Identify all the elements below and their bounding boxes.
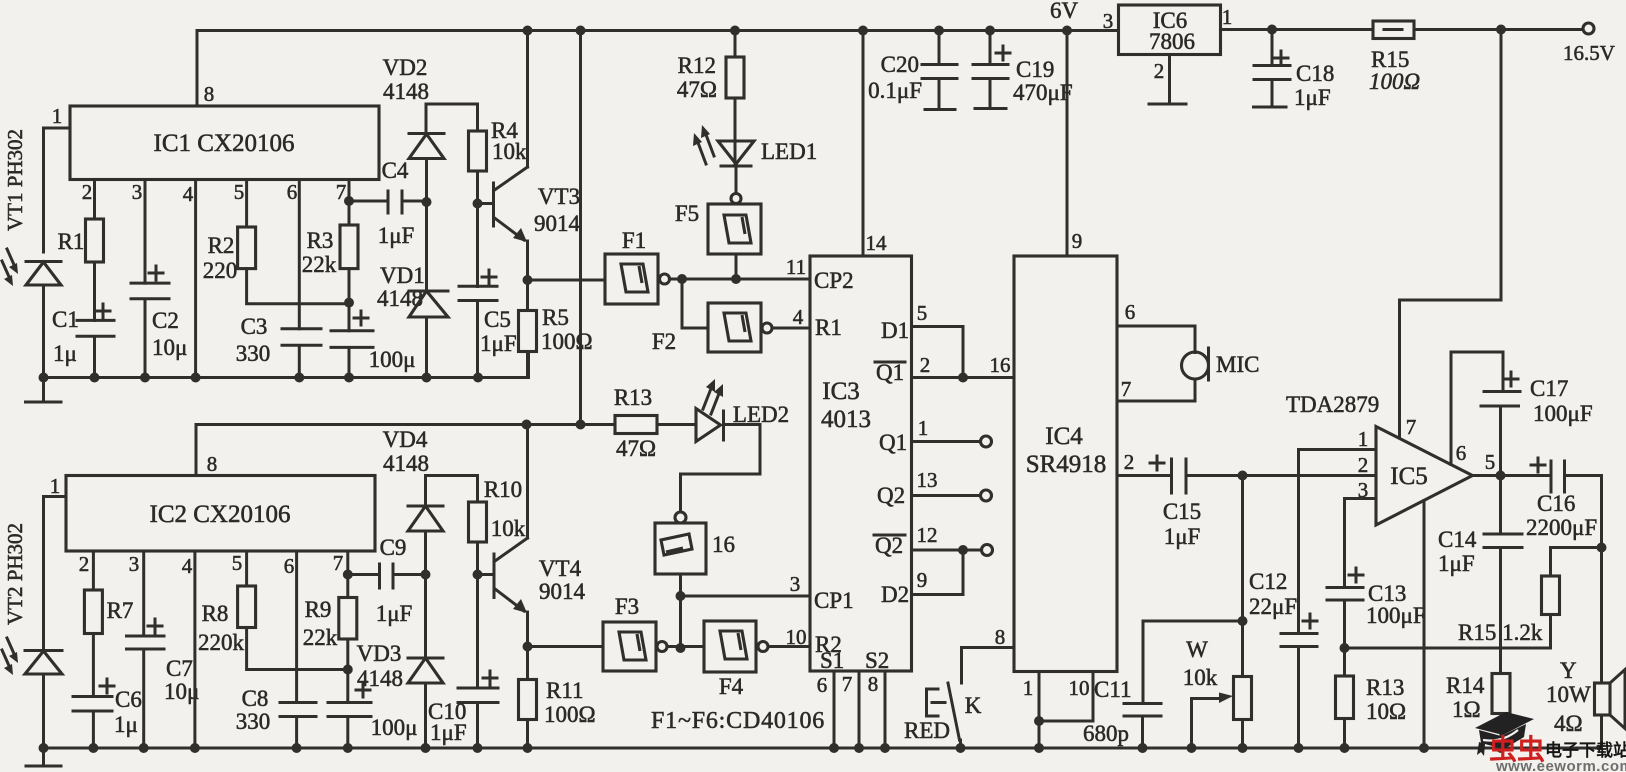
wire R1 to C1 — [93, 262, 96, 320]
svg-text:7: 7 — [333, 551, 344, 575]
svg-text:R2: R2 — [208, 233, 235, 258]
wire IC5 pin 6 to C17 — [1451, 352, 1503, 465]
svg-text:22μF: 22μF — [1249, 594, 1297, 619]
svg-text:C3: C3 — [241, 314, 268, 339]
svg-text:10Ω: 10Ω — [1366, 699, 1406, 724]
svg-text:W: W — [1186, 637, 1208, 662]
ground symbol bottom section — [26, 748, 61, 766]
svg-text:S1: S1 — [820, 648, 844, 673]
svg-text:22k: 22k — [302, 252, 337, 277]
svg-text:10k: 10k — [1183, 665, 1218, 690]
wire pin 4 to ground rail — [193, 551, 196, 748]
ground IC6 pin 2 — [1149, 55, 1186, 105]
resistor R10 10k — [469, 502, 487, 542]
diode VD4 — [408, 476, 443, 507]
wire IC4 pin 10 to pin 1 — [1039, 672, 1093, 722]
wire IC3 pin 6 (S1) to ground — [833, 671, 836, 748]
svg-text:C17: C17 — [1530, 376, 1568, 401]
diode VD2 — [409, 104, 444, 134]
wire IC5 output pin 5 — [1473, 474, 1552, 477]
svg-text:R13: R13 — [614, 385, 652, 410]
ground symbol top section — [26, 378, 62, 403]
svg-text:R1: R1 — [815, 315, 842, 340]
svg-text:9: 9 — [1072, 229, 1083, 253]
capacitor C11 680p — [1124, 621, 1161, 748]
node R3/R2/100u junction — [344, 298, 354, 308]
wire pin 7 down — [348, 180, 351, 226]
wire VT4 emitter down — [526, 612, 529, 680]
svg-text:R7: R7 — [107, 598, 134, 623]
svg-text:IC1 CX20106: IC1 CX20106 — [154, 130, 295, 157]
svg-text:1μF: 1μF — [430, 720, 467, 745]
svg-text:6V: 6V — [1050, 0, 1079, 23]
svg-text:1μF: 1μF — [376, 601, 413, 626]
svg-text:D1: D1 — [881, 318, 909, 343]
svg-text:VT4: VT4 — [539, 556, 582, 581]
svg-text:10μ: 10μ — [152, 335, 187, 360]
node VT4 collector junction — [522, 420, 532, 430]
node pin7/C9/R9 — [343, 570, 353, 580]
wire IC2 supply drop (6V rail to pin-8 wire) — [579, 31, 582, 425]
capacitor C7 10u — [127, 636, 165, 748]
wire R2 to R3/VD1 node — [247, 269, 349, 304]
node C9/VD junction — [421, 570, 431, 580]
wire pin 6 to C3 — [298, 180, 301, 329]
svg-text:220: 220 — [203, 258, 238, 283]
svg-text:13: 13 — [917, 468, 938, 492]
wire IC5 pin 1 input — [1299, 448, 1377, 451]
svg-text:4148: 4148 — [357, 666, 403, 691]
svg-text:Y: Y — [1560, 658, 1577, 683]
wire branch down to F2 — [682, 279, 708, 328]
node emitter/R11/F3 — [523, 642, 533, 652]
wire R5 to ground elbow — [478, 352, 528, 378]
svg-text:C5: C5 — [484, 307, 511, 332]
wire R8 to R9/100u node — [247, 628, 348, 670]
svg-text:电子下载站: 电子下载站 — [1545, 740, 1626, 760]
svg-text:6: 6 — [284, 554, 295, 578]
wire IC4 pin 7 to MIC bottom — [1117, 379, 1195, 401]
node C18 junction — [1267, 25, 1277, 35]
photodiode VT2 PH302 — [25, 649, 62, 652]
node IC3 pin14 junction — [858, 26, 868, 36]
svg-text:7: 7 — [842, 672, 853, 696]
svg-text:1μF: 1μF — [378, 223, 415, 248]
wire VD4 top to R10 top — [426, 474, 478, 477]
inverter F2 (CD40106) — [708, 303, 761, 352]
wire base link — [478, 202, 494, 205]
inverter F5 (CD40106) — [731, 194, 741, 204]
wire F2 out to IC3 R1 pin 4 — [772, 327, 810, 330]
svg-text:1μ: 1μ — [53, 341, 77, 366]
capacitor C13 100uF — [1327, 588, 1363, 677]
wire main ground rail — [44, 747, 1602, 750]
wire D2 pin 9 to Q2bar net — [912, 550, 964, 595]
wire pin2 node down to W — [1241, 476, 1244, 677]
svg-text:2: 2 — [1154, 59, 1165, 83]
wire VD2 top to R4 top — [426, 103, 478, 106]
node ground dots bottom — [39, 743, 49, 753]
resistor R14 1ohm — [1492, 674, 1510, 714]
svg-text:F3: F3 — [615, 594, 639, 619]
op-amp U IC1 CX20106 body — [70, 106, 379, 180]
flip-flop U IC3 4013 body — [810, 256, 912, 671]
node R9/R8/100u junction — [343, 665, 353, 675]
node ground dots top section — [39, 373, 49, 383]
wire IC4 pin 9 supply drop — [1066, 31, 1069, 257]
svg-text:3: 3 — [790, 572, 801, 596]
svg-text:1μ: 1μ — [114, 712, 138, 737]
node C4/VD junction — [422, 197, 432, 207]
svg-text:8: 8 — [995, 625, 1006, 649]
svg-text:4148: 4148 — [383, 451, 429, 476]
capacitor C19 470uF — [973, 31, 1008, 109]
capacitor C16 2200uF — [1551, 461, 1602, 683]
wire LED2 to F6 input — [681, 425, 761, 513]
wire 16.5V drop to IC5 pin 7 — [1400, 30, 1502, 437]
wire IC2 pin 8 up to supply wire — [195, 425, 198, 476]
svg-text:2: 2 — [1358, 453, 1369, 477]
wire R4 to base node — [476, 171, 479, 287]
svg-text:8: 8 — [204, 82, 215, 106]
wire pin 7 down — [346, 551, 349, 598]
svg-text:100μF: 100μF — [1533, 401, 1593, 426]
wire IC6 pin 1 out — [1221, 28, 1374, 31]
svg-text:Q2: Q2 — [875, 533, 903, 558]
svg-text:RED: RED — [904, 718, 950, 743]
regulator IC6 7806 body — [1119, 5, 1221, 55]
svg-text:6: 6 — [287, 180, 298, 204]
svg-text:VD3: VD3 — [357, 641, 402, 666]
node VT3 collector junction — [523, 26, 533, 36]
svg-text:K: K — [965, 693, 982, 718]
node pin7/C4/R3 — [344, 196, 354, 206]
svg-text:C7: C7 — [166, 656, 193, 681]
svg-text:Q1: Q1 — [876, 360, 904, 385]
node emitter/R5/F1 — [523, 275, 533, 285]
svg-text:3: 3 — [129, 552, 140, 576]
svg-text:R14: R14 — [1446, 673, 1485, 698]
node IC2 supply drop junction — [576, 26, 586, 36]
wire IC1 pin 1 to photodiode VT1 — [44, 128, 71, 252]
svg-text:220k: 220k — [198, 630, 245, 655]
svg-text:470μF: 470μF — [1013, 80, 1073, 105]
svg-text:9: 9 — [917, 568, 928, 592]
wire pin 2 to R1 — [93, 180, 96, 220]
svg-text:F2: F2 — [652, 329, 676, 354]
wire feedback R15 1.2k net — [1345, 615, 1551, 649]
node F5/CP2 junction — [731, 274, 741, 284]
svg-text:1: 1 — [1222, 5, 1233, 29]
capacitor C17 100uF — [1481, 392, 1520, 476]
node C15/W/C11 junction — [1238, 471, 1248, 481]
node C13/R13/feedback junction — [1340, 643, 1350, 653]
node speaker/R15 junction — [1597, 543, 1607, 553]
node output/C17/C14 junction — [1496, 471, 1506, 481]
svg-text:6: 6 — [817, 673, 828, 697]
wire R11 to ground — [526, 720, 529, 749]
node 16.5V drop junction — [1496, 25, 1506, 35]
wire F5 output to CP2 net — [735, 254, 738, 279]
svg-text:6: 6 — [1456, 441, 1467, 465]
svg-text:1μF: 1μF — [480, 331, 517, 356]
svg-text:2200μF: 2200μF — [1526, 515, 1597, 540]
capacitor C10 1uF — [458, 688, 498, 748]
wire IC2 pin 1 to photodiode VT2 — [44, 497, 67, 651]
svg-text:4013: 4013 — [821, 406, 871, 433]
svg-text:100μ: 100μ — [369, 347, 416, 372]
svg-text:Q2: Q2 — [877, 483, 905, 508]
inverter F4 (CD40106) — [704, 621, 756, 672]
svg-text:R3: R3 — [307, 228, 334, 253]
capacitor C6 1u — [73, 697, 112, 749]
svg-text:R10: R10 — [484, 477, 522, 502]
wire IC3 pin 14 to 6V rail — [862, 31, 865, 257]
svg-text:R13: R13 — [1366, 675, 1404, 700]
wire Q1 test point — [912, 440, 981, 443]
wire R12 feed from rail — [734, 31, 737, 58]
svg-text:16: 16 — [990, 353, 1011, 377]
wire IC3 pin 7 to ground — [858, 671, 861, 748]
svg-text:3: 3 — [1103, 9, 1114, 33]
resistor R11 100ohm — [519, 680, 537, 720]
capacitor C14 1uF — [1484, 476, 1522, 674]
svg-text:16: 16 — [712, 532, 735, 557]
svg-text:9014: 9014 — [534, 211, 581, 236]
wire IC4 pin 6 to MIC — [1117, 326, 1195, 353]
svg-text:5: 5 — [1485, 450, 1496, 474]
wire emitter to F1 — [528, 279, 606, 282]
svg-text:IC5: IC5 — [1390, 463, 1428, 490]
svg-text:1: 1 — [1358, 427, 1369, 451]
svg-text:F5: F5 — [675, 201, 699, 226]
wire Q2 test point — [912, 494, 981, 497]
svg-text:VD4: VD4 — [383, 427, 428, 452]
svg-text:LED1: LED1 — [761, 139, 817, 164]
capacitor 100u (pin7 IC2) — [328, 703, 371, 749]
diode VD1 — [409, 202, 448, 291]
svg-text:100Ω: 100Ω — [544, 702, 596, 727]
svg-text:C15: C15 — [1163, 499, 1201, 524]
wire emitter to F3 — [528, 645, 604, 648]
capacitor C3 330 — [282, 329, 321, 378]
wire Q1bar to IC4 pin 16 — [912, 376, 1015, 379]
svg-text:C6: C6 — [115, 687, 142, 712]
wire IC3 pin 8 (S2) to ground — [884, 671, 887, 748]
resistor R13 10ohm — [1336, 676, 1354, 719]
svg-text:100μ: 100μ — [371, 715, 418, 740]
diode VD3 — [408, 575, 443, 659]
svg-text:7: 7 — [1406, 415, 1417, 439]
capacitor C4 1uF — [349, 191, 426, 213]
op-amp IC5 TDA2879 — [1376, 427, 1473, 526]
svg-text:C14: C14 — [1438, 527, 1477, 552]
svg-text:6: 6 — [1125, 300, 1136, 324]
capacitor C1 1u — [77, 320, 114, 377]
svg-text:SR4918: SR4918 — [1026, 451, 1107, 478]
watermark graduation cap logo — [1475, 712, 1534, 735]
svg-text:47Ω: 47Ω — [677, 77, 717, 102]
svg-text:VD1: VD1 — [380, 263, 425, 288]
wire IC5 pin 3 to C13 — [1345, 499, 1377, 588]
svg-text:F1: F1 — [622, 228, 646, 253]
svg-text:9014: 9014 — [539, 579, 586, 604]
node W wiper net junction — [1238, 616, 1248, 626]
capacitor C12 22uF — [1281, 634, 1317, 749]
wire R4 feed — [476, 104, 479, 131]
svg-text:1μF: 1μF — [1164, 524, 1201, 549]
svg-text:12: 12 — [917, 523, 938, 547]
svg-text:14: 14 — [866, 231, 888, 255]
svg-text:C8: C8 — [242, 686, 269, 711]
svg-text:IC3: IC3 — [822, 378, 860, 405]
svg-text:7: 7 — [1121, 377, 1132, 401]
svg-text:330: 330 — [236, 341, 271, 366]
svg-text:C20: C20 — [881, 52, 919, 77]
node 6V / IC4 pin9 junction — [1062, 26, 1072, 36]
node D1/Q1bar junction — [958, 373, 968, 383]
svg-text:10: 10 — [786, 625, 807, 649]
svg-text:330: 330 — [236, 709, 271, 734]
wire pin8/supply to R13 — [196, 423, 615, 426]
svg-text:C2: C2 — [152, 308, 179, 333]
capacitor C5 1uF — [459, 286, 497, 377]
wire R3 to 100u cap — [348, 269, 351, 331]
resistor R8 220k — [238, 586, 256, 628]
node R4/C5/base — [473, 199, 483, 209]
wire CP1 to IC3 pin 3 — [681, 595, 811, 598]
svg-text:11: 11 — [786, 255, 806, 279]
wire R7 to C6 — [92, 634, 95, 697]
svg-text:MIC: MIC — [1216, 352, 1259, 377]
wire F6 output down to CP1 net — [679, 574, 682, 648]
svg-text:47Ω: 47Ω — [616, 436, 656, 461]
wire VT4 collector to supply wire — [526, 425, 529, 539]
capacitor C8 330 — [280, 703, 316, 749]
svg-text:CP2: CP2 — [814, 268, 854, 293]
svg-text:100μF: 100μF — [1366, 603, 1426, 628]
svg-text:C19: C19 — [1016, 57, 1054, 82]
wire pin 5 to R8 — [245, 551, 248, 586]
svg-text:C18: C18 — [1296, 61, 1334, 86]
svg-text:2: 2 — [79, 552, 90, 576]
photodiode VT1 PH302 — [26, 260, 61, 263]
inverter F3 (CD40106) — [603, 622, 656, 671]
potentiometer W 10k — [1234, 677, 1252, 720]
node R10/C10/base — [473, 570, 483, 580]
svg-text:5: 5 — [232, 551, 243, 575]
LED LED2 — [696, 409, 721, 442]
wire pin 3 to C2 — [144, 180, 147, 284]
node Q2bar/D2 junction — [958, 545, 968, 555]
node F1/F2 branch — [677, 274, 687, 284]
wire R12 to LED1 — [734, 98, 737, 166]
node C19 junction — [985, 26, 995, 36]
resistor R4 10k — [469, 131, 487, 171]
svg-text:10k: 10k — [491, 516, 526, 541]
wire IC4 pin 8 to switch K — [962, 648, 1015, 684]
inverter F1 (CD40106) — [605, 254, 658, 304]
node C20 junction — [934, 26, 944, 36]
resistor R15 100ohm (horizontal) — [1373, 21, 1414, 39]
wire R13 to LED2 — [657, 423, 696, 426]
wire F1 out to IC3 CP2 pin 11 — [670, 278, 810, 281]
wire Q2bar test point — [912, 549, 982, 552]
svg-text:1: 1 — [918, 416, 929, 440]
resistor R3 22k — [340, 225, 358, 269]
svg-text:4Ω: 4Ω — [1554, 711, 1583, 736]
node R12 junction — [730, 26, 740, 36]
speaker Y 10W 4ohm — [1595, 683, 1611, 715]
svg-text:R11: R11 — [546, 678, 584, 703]
wire R9 to 100u cap — [346, 639, 349, 703]
op-amp U IC2 CX20106 body — [66, 476, 375, 552]
svg-text:IC4: IC4 — [1045, 423, 1083, 450]
svg-text:R9: R9 — [305, 597, 332, 622]
wire C12 branch — [1297, 450, 1300, 634]
svg-text:100Ω: 100Ω — [1369, 69, 1420, 94]
svg-text:C9: C9 — [380, 535, 407, 560]
svg-text:F4: F4 — [719, 674, 744, 699]
svg-text:5: 5 — [234, 180, 245, 204]
svg-text:IC2 CX20106: IC2 CX20106 — [150, 501, 291, 528]
svg-text:C12: C12 — [1249, 569, 1287, 594]
svg-text:R8: R8 — [202, 601, 229, 626]
wire pin 5 to R2 — [245, 180, 248, 228]
terminal 16.5V — [1583, 23, 1594, 34]
wire R15 to 16.5V terminal — [1414, 28, 1583, 31]
svg-text:C1: C1 — [52, 307, 79, 332]
wire D1 pin 5 to Q1bar net — [912, 327, 964, 378]
resistor R13 47ohm (horizontal) — [615, 416, 657, 434]
svg-text:www.eeworm.com: www.eeworm.com — [1495, 758, 1626, 772]
wire IC5 ground pin — [1423, 501, 1426, 749]
wire VT3 collector to 6V rail — [526, 31, 529, 168]
svg-text:C11: C11 — [1094, 677, 1132, 702]
svg-text:R1: R1 — [58, 229, 85, 254]
capacitor C9 1uF — [348, 564, 426, 588]
wire R10 feed — [476, 476, 479, 503]
svg-text:2: 2 — [82, 180, 93, 204]
svg-text:10W: 10W — [1546, 682, 1591, 707]
wire base link — [478, 573, 495, 576]
svg-text:1μF: 1μF — [1294, 85, 1331, 110]
transistor VT3 9014 — [492, 183, 495, 226]
svg-text:4: 4 — [793, 305, 804, 329]
wire R10 to base node — [476, 542, 479, 688]
svg-text:VT3: VT3 — [538, 184, 580, 209]
resistor R2 220 — [238, 227, 256, 269]
resistor R9 22k — [339, 598, 357, 640]
wire F3 out to F4 — [667, 645, 704, 648]
resistor R1 — [86, 219, 104, 262]
op-amp U IC4 SR4918 body — [1014, 256, 1117, 672]
svg-text:1: 1 — [52, 104, 63, 128]
svg-text:R5: R5 — [542, 305, 569, 330]
svg-text:4: 4 — [183, 182, 194, 206]
svg-text:1μF: 1μF — [1438, 551, 1475, 576]
svg-text:TDA2879: TDA2879 — [1286, 392, 1379, 417]
node F3/F4/F6 junction — [676, 643, 686, 653]
wire IC4 pin 2 to C15 — [1117, 474, 1172, 477]
wire IC1 pin 8 to 6V rail — [196, 31, 199, 107]
svg-text:D2: D2 — [881, 582, 909, 607]
svg-text:C4: C4 — [382, 158, 409, 183]
capacitor C20 0.1uF — [922, 31, 957, 110]
resistor R5 100ohm — [519, 311, 537, 352]
wire 6V supply rail — [197, 29, 1118, 32]
microphone MIC — [1182, 352, 1209, 379]
